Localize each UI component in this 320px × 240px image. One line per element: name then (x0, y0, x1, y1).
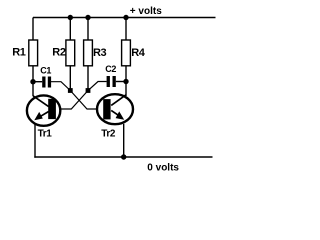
junction dot 0V-Tr2 emitter (121, 154, 126, 159)
svg-text:Tr1: Tr1 (38, 128, 53, 139)
resistor R3 (84, 40, 93, 66)
capacitor C2 (107, 76, 110, 87)
junction dot rail-R2 (68, 15, 73, 20)
wire C1 left lead (33, 81, 42, 83)
svg-text:C1: C1 (40, 65, 51, 75)
svg-text:R2: R2 (52, 47, 66, 59)
wire C2 left lead to Tr1 base (59, 82, 107, 110)
Tr2 envelope (97, 94, 133, 124)
wire R2 branch (69, 18, 71, 91)
Tr2 emitter arrow (116, 111, 125, 119)
wire R4 branch (rail to C2 node to Tr2 collector) (125, 18, 127, 97)
Tr1 collector lead (33, 96, 49, 107)
wire C1 right lead to Tr2 base (51, 82, 98, 109)
junction dot R3-coupling (86, 88, 91, 93)
Tr2 emitter lead (111, 110, 121, 117)
resistor R1 (29, 40, 38, 66)
junction dot R2-coupling (68, 88, 73, 93)
svg-text:+ volts: + volts (130, 6, 162, 17)
Tr1 envelope (27, 95, 60, 125)
junction dot R1-C1 (30, 79, 35, 84)
wire Tr2 emitter to 0V (123, 124, 125, 157)
Tr1 emitter arrow (34, 112, 43, 120)
wire R3 branch (87, 18, 89, 91)
Tr1 emitter lead (37, 112, 48, 119)
wire bottom 0V rail (34, 156, 212, 158)
svg-text:C2: C2 (105, 64, 116, 74)
wire Tr1 emitter to 0V (34, 124, 36, 158)
wire R1 branch (rail to C1 node to Tr1 collector) (32, 18, 34, 97)
capacitor C1 (42, 77, 45, 88)
junction dot rail-R4 (123, 15, 128, 20)
transistor Tr1 (27, 95, 60, 139)
transistor Tr2 (97, 94, 133, 139)
svg-text:R3: R3 (93, 47, 107, 59)
Tr1 base bar (48, 99, 56, 119)
svg-text:0 volts: 0 volts (147, 163, 179, 174)
Tr2 collector lead (111, 95, 126, 106)
junction dot R4-C2 (123, 79, 128, 84)
wire top +V rail (33, 17, 216, 19)
resistor R4 (122, 40, 131, 66)
wire C2 right lead (116, 81, 126, 83)
svg-text:R4: R4 (131, 47, 146, 59)
svg-text:Tr2: Tr2 (101, 128, 116, 139)
junction dot rail-R3 (85, 15, 90, 20)
resistor R2 (66, 40, 75, 66)
svg-text:R1: R1 (12, 46, 26, 58)
Tr2 base bar (103, 99, 110, 119)
